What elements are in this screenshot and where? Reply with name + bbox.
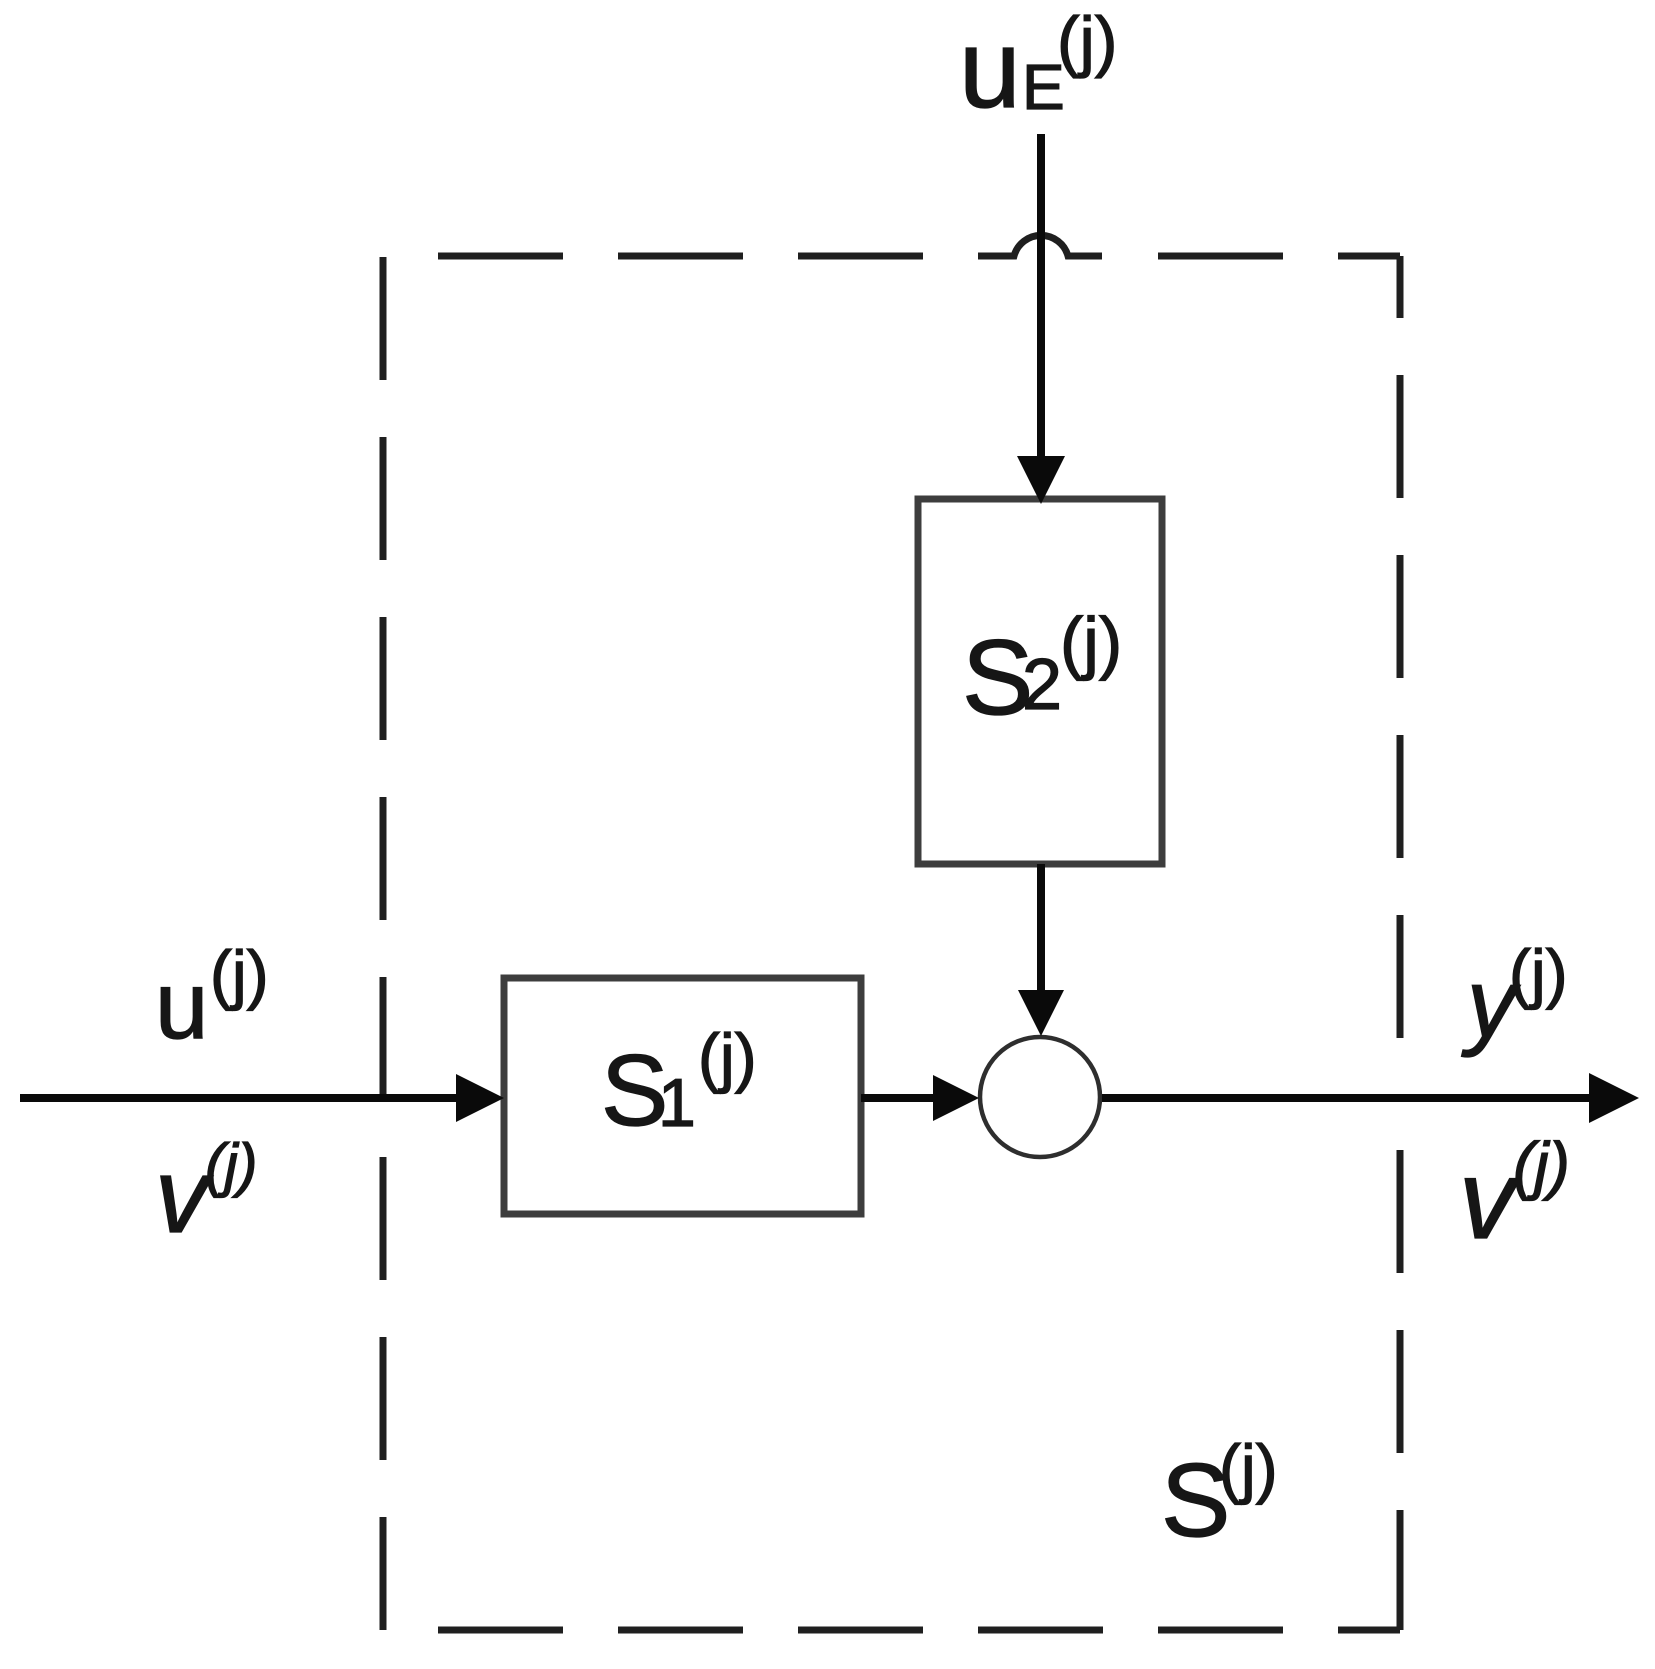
svg-text:u: u [959,7,1021,131]
svg-text:1: 1 [658,1065,696,1141]
svg-text:2: 2 [1022,645,1062,725]
svg-text:(j): (j) [205,1132,257,1198]
svg-text:(j): (j) [1060,603,1122,681]
svg-text:(j): (j) [1509,936,1568,1010]
svg-text:(j): (j) [1219,1431,1278,1505]
svg-text:v: v [1459,1137,1521,1262]
svg-text:(j): (j) [1513,1129,1570,1201]
svg-text:u: u [155,952,208,1059]
svg-text:(j): (j) [210,937,269,1011]
svg-text:(j): (j) [1057,3,1117,79]
svg-text:(j): (j) [698,1020,757,1094]
